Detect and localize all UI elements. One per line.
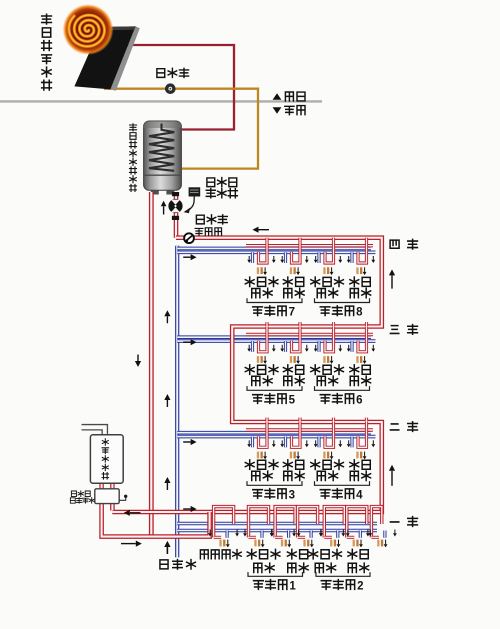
tank	[144, 121, 182, 195]
floor 3 fixture labels	[245, 365, 278, 386]
floor1 bumps and hot drops	[214, 507, 234, 538]
pipe tank to pump to 4F line	[174, 194, 179, 238]
heater outlet pipe to 536 line and up to 1F main	[102, 504, 210, 537]
sun glow	[63, 4, 114, 55]
tap water label + arrow	[166, 547, 168, 554]
cold branch lines per floor	[177, 248, 375, 252]
svg-text:1: 1	[289, 580, 296, 592]
cold water riser	[175, 246, 179, 557]
gas heater flue	[82, 427, 105, 436]
floor 2 fixture labels	[245, 460, 278, 481]
hot fixture drops floors 4,3,2	[259, 238, 268, 263]
roof/indoor labels	[273, 92, 305, 115]
label: controller	[206, 178, 237, 198]
svg-text:3: 3	[289, 489, 295, 501]
svg-text:7: 7	[289, 307, 295, 319]
arrow up beside pump	[163, 206, 165, 214]
heater-controlbox stubs	[99, 483, 103, 489]
floor labels	[390, 239, 417, 249]
label: check valve	[195, 228, 221, 236]
label: solar collector (vertical)	[42, 14, 52, 90]
floor 4 fixture labels	[245, 277, 278, 298]
controller box	[184, 187, 201, 213]
label: circulation pump (mid)	[196, 215, 227, 224]
label: control center	[70, 491, 94, 503]
collector hot pipe (dark red) to tank	[126, 45, 234, 130]
gas heater box	[90, 435, 123, 483]
sun spiral	[69, 15, 105, 46]
svg-text:5: 5	[289, 394, 296, 406]
roof line	[0, 100, 322, 102]
label: tank (vertical)	[129, 124, 136, 192]
solar collector panel	[74, 26, 139, 90]
label: circulation pump (top)	[157, 68, 189, 77]
svg-text:4: 4	[356, 489, 363, 501]
svg-text:2: 2	[357, 580, 363, 592]
collector return pipe (orange) from tank	[104, 89, 258, 169]
floor 1 fixture labels	[247, 549, 280, 572]
hot distribution line per floor (4,3,2)	[246, 244, 373, 247]
cold fixture legs floors 4,3,2	[251, 252, 254, 263]
heater inlet pipe from 1F main	[110, 504, 115, 511]
svg-text:8: 8	[356, 307, 363, 319]
svg-text:6: 6	[356, 394, 362, 406]
flow arrows	[259, 229, 270, 231]
control center box	[95, 489, 119, 504]
pump on collector line	[165, 83, 176, 94]
check valve on 4F line	[184, 233, 194, 243]
cold fixture legs floor 1	[226, 531, 229, 538]
circulation pump (black)	[168, 192, 182, 220]
faucet stubs and mini arrows	[247, 256, 275, 275]
hot trunk from tank (left red riser)	[149, 192, 154, 537]
hot main snake through floors	[112, 238, 382, 512]
